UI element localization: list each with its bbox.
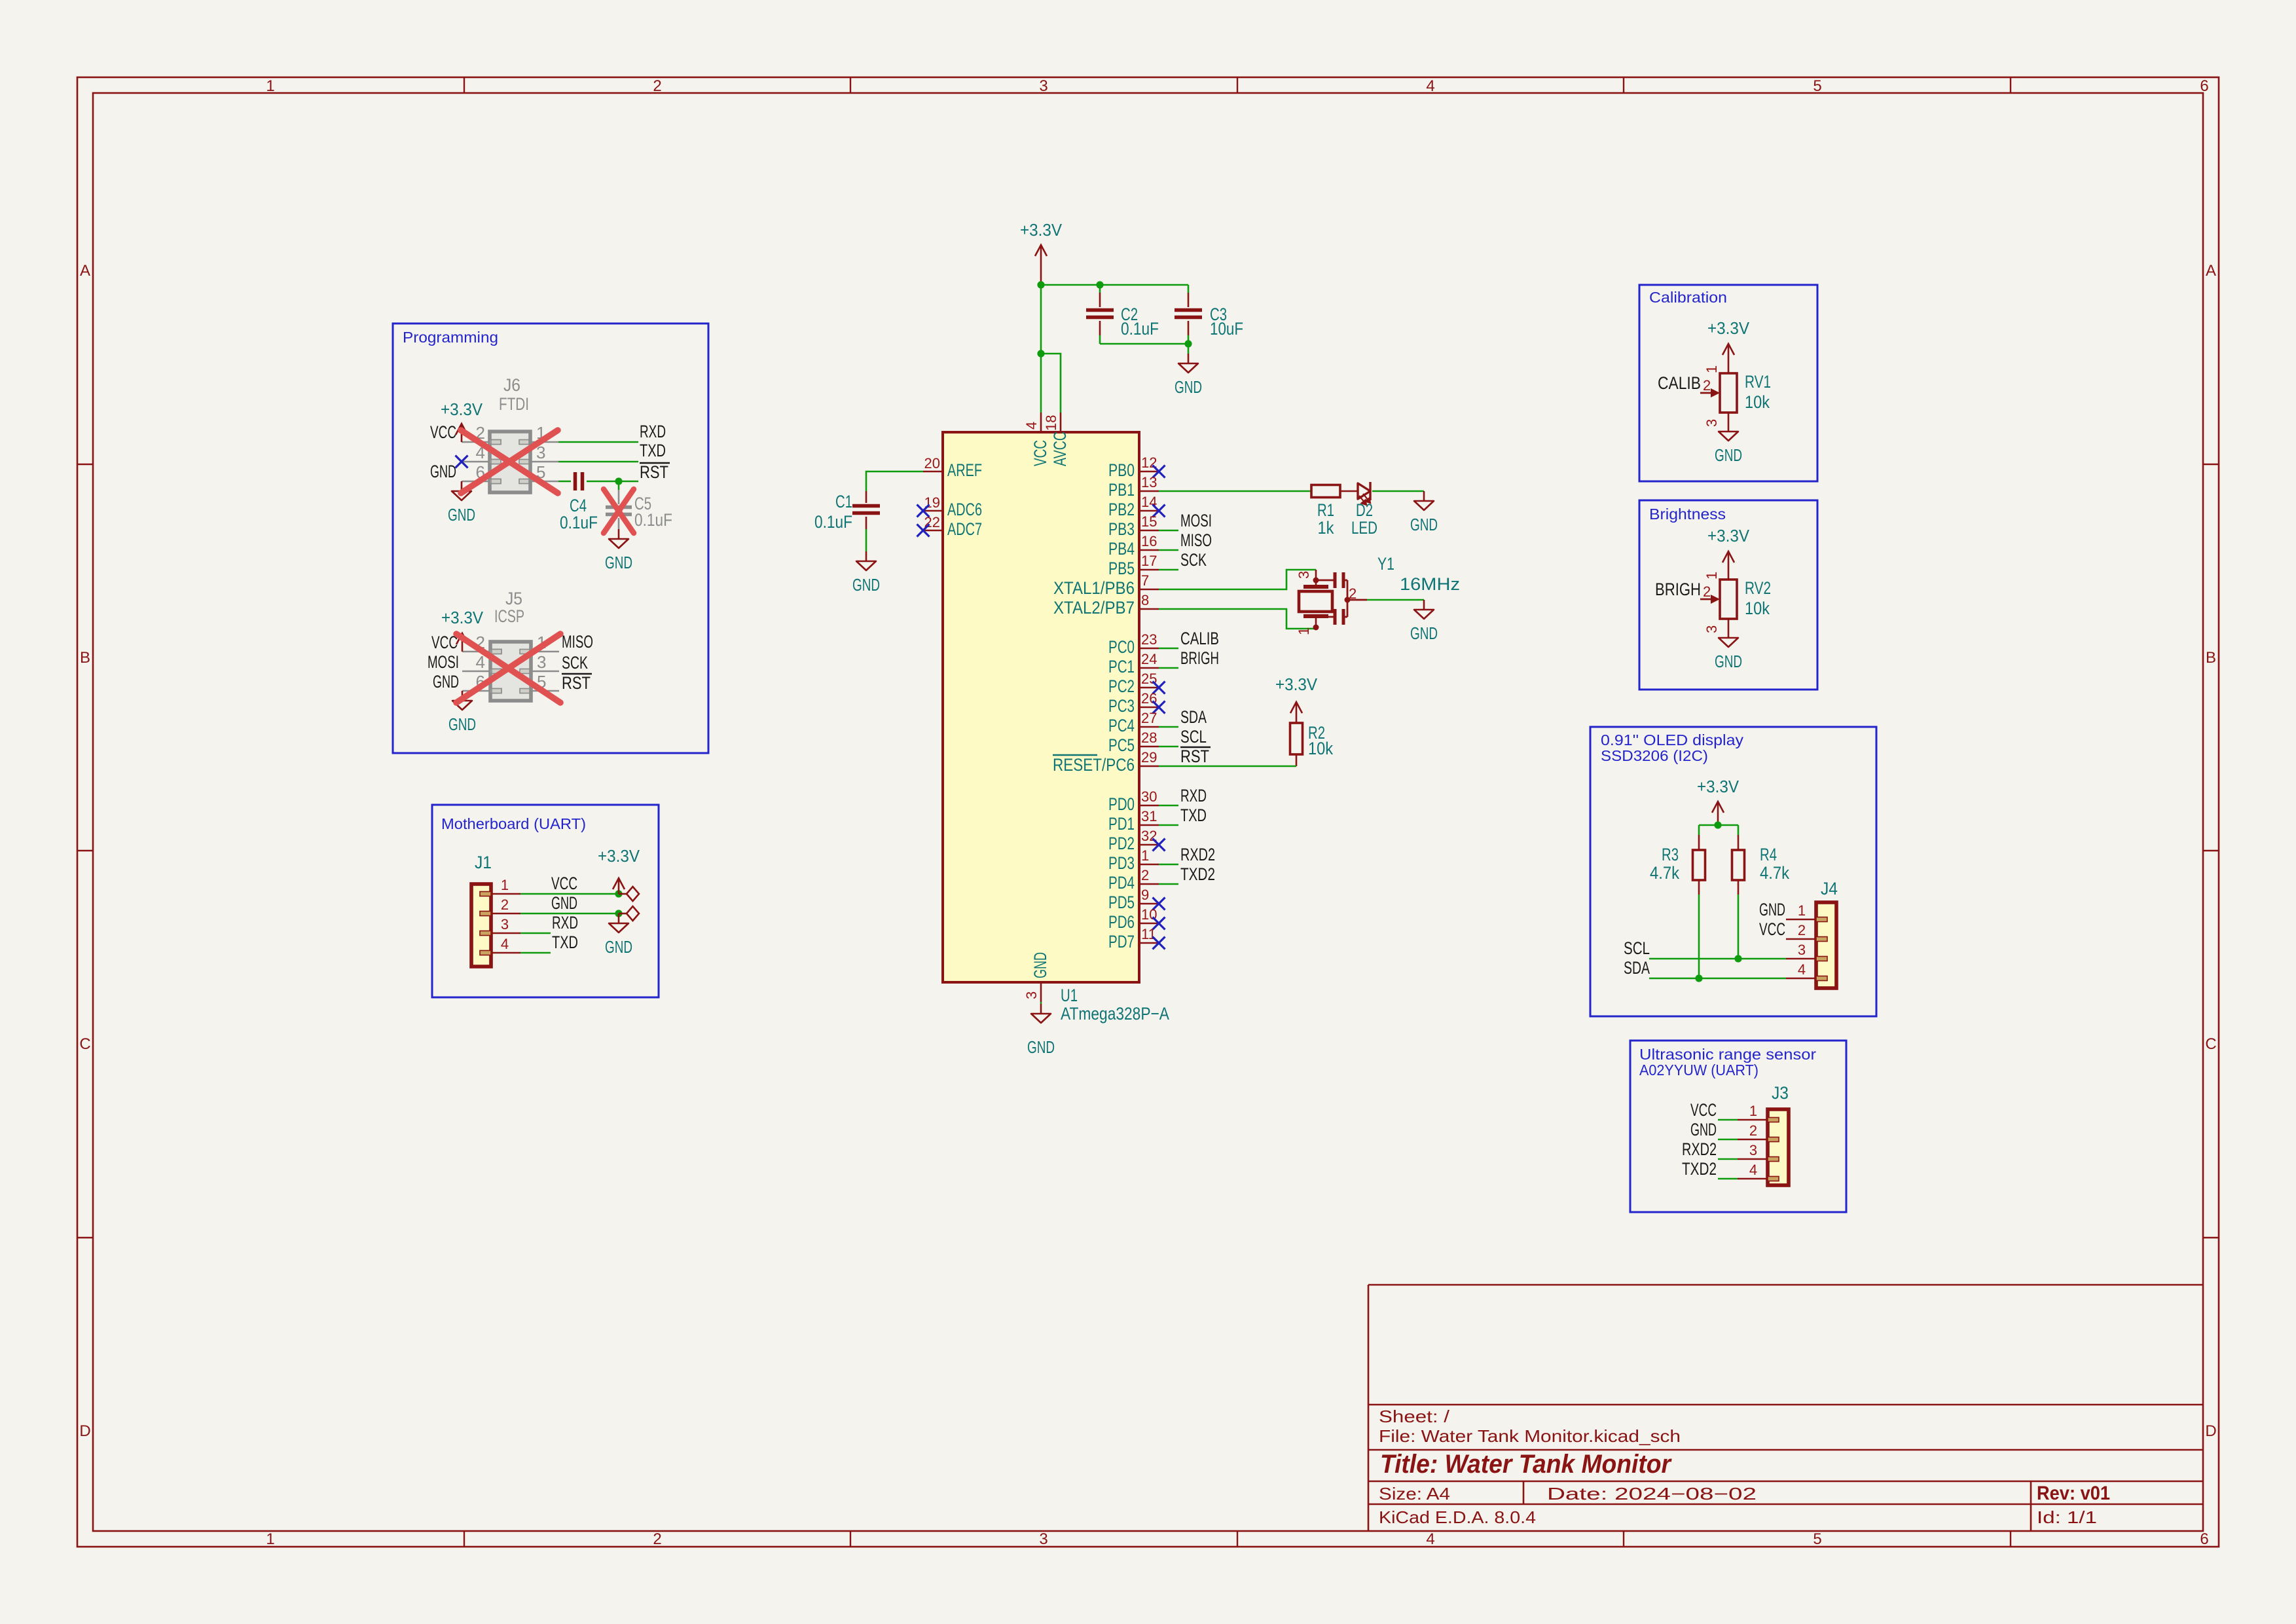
- svg-text:Size: A4: Size: A4: [1379, 1484, 1450, 1504]
- svg-text:+3.3V: +3.3V: [1707, 526, 1750, 545]
- svg-text:8: 8: [1141, 592, 1149, 608]
- svg-text:MISO: MISO: [562, 632, 593, 652]
- svg-text:PC0: PC0: [1108, 637, 1135, 657]
- wire SCK: [1159, 569, 1178, 571]
- svg-text:20: 20: [924, 455, 940, 471]
- wire J1 pin3 RXD: [520, 932, 551, 934]
- ground at J5 pin6: [448, 691, 476, 734]
- svg-text:9: 9: [1141, 887, 1149, 903]
- wire MISO: [1159, 549, 1178, 551]
- wire GND bottom: [1040, 1002, 1042, 1004]
- ground below C1: [852, 551, 880, 595]
- svg-text:10k: 10k: [1745, 599, 1770, 618]
- svg-text:+3.3V: +3.3V: [1275, 674, 1318, 694]
- wire junction down to C5: [618, 481, 620, 490]
- svg-text:0.91'' OLED display: 0.91'' OLED display: [1601, 731, 1744, 748]
- PWR_FLAG on GND: [619, 906, 639, 921]
- Programming note box: [393, 323, 708, 753]
- svg-text:PB5: PB5: [1108, 559, 1135, 578]
- svg-text:10uF: 10uF: [1210, 319, 1243, 339]
- pin 7 XTAL1/PB6: [1053, 572, 1159, 598]
- svg-text:PD3: PD3: [1108, 853, 1135, 873]
- resistor R4 4.7k: [1732, 845, 1790, 883]
- no-connect X PC2: [1153, 682, 1165, 694]
- capacitor C3: [1175, 293, 1243, 339]
- junction at C2 top: [1096, 281, 1103, 288]
- wire to VCC pin: [1040, 354, 1042, 413]
- pin 3 GND (bottom): [1023, 952, 1050, 1002]
- ground below RV1: [1715, 422, 1742, 465]
- svg-text:VCC: VCC: [1690, 1100, 1717, 1120]
- svg-text:GND: GND: [605, 937, 632, 957]
- svg-text:RXD: RXD: [640, 422, 666, 441]
- potentiometer RV1 10k: [1700, 365, 1771, 427]
- svg-text:4: 4: [1798, 961, 1806, 978]
- ground below U1: [1027, 1004, 1055, 1057]
- svg-text:SCK: SCK: [562, 653, 588, 673]
- power +3.3V top rail: [1020, 220, 1063, 285]
- capacitor C1: [814, 491, 880, 532]
- svg-text:PD2: PD2: [1108, 834, 1135, 853]
- svg-text:J5: J5: [505, 589, 522, 608]
- wire C1 to ground: [866, 529, 867, 551]
- svg-text:3: 3: [1749, 1142, 1757, 1158]
- svg-text:18: 18: [1043, 415, 1059, 431]
- wire TXD2 (J3): [1718, 1178, 1738, 1180]
- pin 26 PC3: [1108, 690, 1159, 716]
- junction R3/SDA: [1695, 974, 1702, 982]
- pin 23 PC0: [1108, 631, 1159, 657]
- power +3.3V at RV1: [1707, 318, 1750, 373]
- wire C3 top: [1188, 285, 1190, 293]
- svg-text:SDA: SDA: [1180, 707, 1207, 727]
- wire J1 pin2 GND: [520, 913, 619, 915]
- svg-text:Rev: v01: Rev: v01: [2037, 1483, 2110, 1504]
- svg-text:3: 3: [1704, 419, 1720, 427]
- svg-text:XTAL1/PB6: XTAL1/PB6: [1053, 578, 1135, 598]
- ground at J1: [605, 913, 632, 957]
- svg-text:SSD3206 (I2C): SSD3206 (I2C): [1601, 747, 1708, 764]
- svg-text:RXD2: RXD2: [1180, 845, 1215, 864]
- no-connect X PD7: [1153, 937, 1165, 950]
- DNP cross on J5: [456, 634, 560, 703]
- svg-text:C: C: [2205, 1035, 2216, 1053]
- svg-text:Title: Water Tank Monitor: Title: Water Tank Monitor: [1380, 1450, 1672, 1479]
- no-connect X ADC6: [917, 505, 930, 517]
- svg-text:4: 4: [1426, 1530, 1434, 1548]
- wire R4 to SCL: [1738, 880, 1740, 895]
- svg-text:GND: GND: [448, 714, 476, 734]
- svg-text:Ultrasonic range sensor: Ultrasonic range sensor: [1639, 1046, 1816, 1063]
- svg-text:PB2: PB2: [1108, 500, 1135, 519]
- wire XTAL1 to Y1 pin3: [1159, 570, 1316, 589]
- svg-text:4.7k: 4.7k: [1650, 863, 1679, 883]
- wire R3 to SDA: [1698, 880, 1700, 895]
- capacitor C2: [1086, 293, 1159, 339]
- svg-text:3: 3: [501, 916, 509, 932]
- svg-text:MISO: MISO: [1180, 530, 1212, 550]
- svg-text:16MHz: 16MHz: [1400, 574, 1460, 594]
- svg-text:Calibration: Calibration: [1649, 289, 1727, 306]
- svg-text:1: 1: [266, 1530, 274, 1548]
- svg-text:Programming: Programming: [403, 329, 498, 346]
- svg-text:10k: 10k: [1308, 739, 1333, 758]
- svg-text:BRIGH: BRIGH: [1180, 648, 1219, 668]
- svg-text:7: 7: [1141, 572, 1149, 589]
- svg-text:11: 11: [1141, 926, 1156, 942]
- wire to R3: [1698, 825, 1700, 835]
- svg-text:ICSP: ICSP: [494, 606, 524, 626]
- pin 30 PD0: [1108, 788, 1159, 814]
- wire CALIB: [1159, 648, 1178, 650]
- Ultrasonic sensor note box: [1630, 1041, 1846, 1212]
- connector J1: [471, 853, 520, 967]
- pin 9 PD5: [1108, 887, 1159, 912]
- power +3.3V at RV2: [1707, 526, 1750, 580]
- junction at VCC drop: [1037, 281, 1044, 288]
- svg-text:VCC: VCC: [551, 874, 577, 893]
- ground at J6 pin6: [448, 481, 475, 525]
- pin 15 PB3: [1108, 513, 1159, 539]
- svg-text:1: 1: [1704, 572, 1720, 580]
- svg-text:1: 1: [266, 77, 274, 95]
- pin 18 AVCC (top): [1043, 413, 1070, 466]
- wire TXD from J6 pin3: [558, 461, 638, 463]
- svg-text:PB4: PB4: [1108, 539, 1135, 559]
- power +3.3V at J5 pin2: [441, 608, 484, 652]
- no-connect X PD5: [1153, 898, 1165, 910]
- pin 4 VCC (top): [1023, 413, 1050, 466]
- svg-text:RST: RST: [562, 673, 591, 693]
- svg-text:RV2: RV2: [1745, 578, 1771, 598]
- svg-text:CALIB: CALIB: [1180, 629, 1219, 648]
- svg-text:GND: GND: [430, 462, 456, 481]
- svg-text:GND: GND: [852, 575, 880, 595]
- svg-text:5: 5: [1813, 77, 1821, 95]
- svg-text:10k: 10k: [1745, 392, 1770, 412]
- svg-text:13: 13: [1141, 474, 1157, 490]
- svg-text:GND: GND: [1030, 952, 1050, 978]
- svg-text:J6: J6: [503, 375, 520, 395]
- svg-text:4: 4: [1023, 422, 1040, 430]
- svg-text:ADC6: ADC6: [947, 500, 982, 519]
- DNP cross on J6: [461, 430, 558, 493]
- wire RXD2: [1159, 864, 1178, 866]
- wire AREF to C1: [866, 471, 923, 491]
- svg-text:TXD2: TXD2: [1682, 1159, 1717, 1179]
- svg-text:16: 16: [1141, 533, 1157, 549]
- wire D2 to ground: [1372, 490, 1424, 492]
- wire RESET to R2: [1159, 766, 1296, 767]
- svg-text:1: 1: [1749, 1103, 1757, 1119]
- wire J1 pin1 VCC: [520, 893, 619, 895]
- label RST on RESET/PC6 wire: [1180, 747, 1211, 766]
- pin 12 PB0: [1108, 454, 1159, 480]
- Motherboard (UART) note box: [432, 805, 659, 997]
- svg-text:PD4: PD4: [1108, 873, 1135, 893]
- svg-text:6: 6: [2200, 1530, 2208, 1548]
- wire down to VCC/AVCC split: [1040, 285, 1042, 354]
- svg-text:PD5: PD5: [1108, 893, 1135, 912]
- svg-text:RXD: RXD: [552, 913, 578, 932]
- wire SDA: [1649, 978, 1786, 980]
- svg-text:KiCad E.D.A. 8.0.4: KiCad E.D.A. 8.0.4: [1379, 1507, 1536, 1527]
- title block: [1368, 1285, 2203, 1531]
- svg-text:PD7: PD7: [1108, 932, 1135, 951]
- Calibration note box: [1639, 285, 1817, 481]
- svg-text:File: Water Tank Monitor.kicad: File: Water Tank Monitor.kicad_sch: [1379, 1426, 1681, 1446]
- pin 11 PD7: [1108, 926, 1159, 951]
- svg-text:BRIGH: BRIGH: [1655, 580, 1701, 599]
- junction at C3 bottom: [1184, 340, 1192, 347]
- connector J3: [1738, 1083, 1789, 1185]
- svg-text:A: A: [2206, 262, 2216, 280]
- wire MOSI: [1159, 530, 1178, 532]
- wire SCL: [1649, 958, 1786, 960]
- svg-text:4: 4: [1749, 1162, 1757, 1178]
- svg-text:PC5: PC5: [1108, 735, 1135, 755]
- pin R2 bottom: [1296, 754, 1298, 766]
- junction GND: [615, 910, 622, 917]
- svg-text:ATmega328P−A: ATmega328P−A: [1061, 1004, 1169, 1024]
- wire rail R3-R4: [1699, 824, 1738, 826]
- pin 22 ADC7: [923, 514, 982, 539]
- svg-text:3: 3: [1798, 942, 1806, 958]
- pin 1 PD3: [1108, 847, 1159, 873]
- wire C3 bottom: [1188, 335, 1190, 344]
- svg-text:3: 3: [1023, 991, 1040, 999]
- svg-text:A02YYUW (UART): A02YYUW (UART): [1639, 1061, 1758, 1079]
- svg-text:30: 30: [1141, 788, 1157, 805]
- wire TXD2: [1159, 883, 1178, 885]
- svg-text:5: 5: [1813, 1530, 1821, 1548]
- svg-text:0.1uF: 0.1uF: [1121, 319, 1159, 339]
- junction R4/SCL: [1734, 955, 1741, 962]
- capacitor C5 (DNP): [606, 490, 672, 530]
- capacitor C4: [560, 472, 598, 532]
- svg-text:4.7k: 4.7k: [1760, 863, 1789, 883]
- connector J4: [1786, 879, 1838, 988]
- svg-text:J1: J1: [475, 853, 492, 872]
- svg-text:PB1: PB1: [1108, 480, 1135, 500]
- svg-text:Id: 1/1: Id: 1/1: [2037, 1507, 2097, 1527]
- wire XTAL2 to Y1 pin1: [1159, 609, 1316, 629]
- svg-text:1: 1: [1141, 847, 1149, 864]
- svg-text:3: 3: [1296, 571, 1312, 579]
- Brightness note box: [1639, 500, 1817, 690]
- svg-text:VCC: VCC: [1759, 919, 1785, 939]
- pin 31 PD1: [1108, 808, 1159, 834]
- svg-text:GND: GND: [1027, 1037, 1055, 1057]
- bottom rail C2-C3: [1100, 343, 1188, 345]
- svg-text:GND: GND: [1410, 623, 1438, 643]
- power +3.3V at R2: [1275, 674, 1318, 723]
- pin 29 RESET/PC6: [1053, 749, 1159, 775]
- svg-text:+3.3V: +3.3V: [441, 608, 484, 627]
- svg-text:LED: LED: [1351, 518, 1377, 538]
- connector J5 (ICSP, DNP): [462, 589, 559, 701]
- svg-text:27: 27: [1141, 710, 1157, 726]
- svg-text:RST: RST: [640, 462, 668, 482]
- pin 28 PC5: [1108, 729, 1159, 755]
- wire C4 to RST junction: [587, 481, 638, 483]
- svg-text:+3.3V: +3.3V: [598, 846, 640, 866]
- svg-text:Sheet: /: Sheet: /: [1379, 1407, 1450, 1426]
- svg-text:2: 2: [653, 77, 661, 95]
- svg-text:PD0: PD0: [1108, 794, 1135, 814]
- DNP cross on C5: [604, 489, 634, 533]
- svg-text:Brightness: Brightness: [1649, 506, 1726, 523]
- svg-text:B: B: [2206, 649, 2216, 667]
- svg-text:28: 28: [1141, 729, 1157, 746]
- svg-text:+3.3V: +3.3V: [441, 399, 483, 419]
- pin 2 PD4: [1108, 867, 1159, 893]
- pin 27 PC4: [1108, 710, 1159, 735]
- svg-text:RXD: RXD: [1180, 786, 1207, 805]
- MCU U1 ATmega328P-A body: [943, 432, 1139, 982]
- svg-text:0.1uF: 0.1uF: [634, 510, 672, 530]
- junction VCC/AVCC split: [1037, 350, 1044, 357]
- svg-text:GND: GND: [551, 893, 577, 913]
- resistor R3 4.7k: [1650, 845, 1705, 883]
- svg-text:1k: 1k: [1318, 518, 1334, 538]
- svg-text:4: 4: [1426, 77, 1434, 95]
- svg-text:GND: GND: [1175, 377, 1202, 397]
- svg-text:A: A: [80, 262, 90, 280]
- pin 16 PB4: [1108, 533, 1159, 559]
- pin 32 PD2: [1108, 828, 1159, 853]
- svg-text:3: 3: [537, 652, 546, 672]
- svg-text:MOSI: MOSI: [1180, 511, 1212, 530]
- wire BRIGH: [1159, 667, 1178, 669]
- junction VCC: [615, 890, 622, 897]
- svg-text:TXD: TXD: [552, 932, 578, 952]
- svg-text:GND: GND: [1690, 1120, 1717, 1139]
- svg-text:D: D: [2205, 1422, 2216, 1440]
- svg-text:J4: J4: [1821, 879, 1838, 898]
- svg-text:PC1: PC1: [1108, 657, 1135, 676]
- svg-text:B: B: [80, 649, 90, 667]
- svg-text:MOSI: MOSI: [428, 652, 459, 672]
- no-connect X ADC7: [917, 525, 930, 537]
- no-connect X PB2: [1153, 505, 1165, 517]
- svg-text:RXD2: RXD2: [1682, 1139, 1717, 1159]
- wire SDA: [1159, 726, 1178, 728]
- no-connect X PC3: [1153, 701, 1165, 714]
- svg-text:1: 1: [1798, 902, 1806, 919]
- no-connect X PD2: [1153, 839, 1165, 851]
- svg-text:29: 29: [1141, 749, 1157, 766]
- svg-text:VCC: VCC: [1030, 440, 1050, 466]
- svg-text:PB3: PB3: [1108, 519, 1135, 539]
- svg-text:1: 1: [501, 877, 509, 893]
- PWR_FLAG on VCC: [619, 887, 639, 901]
- wire PB1 to R1: [1159, 490, 1311, 492]
- svg-text:XTAL2/PB7: XTAL2/PB7: [1053, 598, 1135, 618]
- no-connect X PB0: [1153, 466, 1165, 478]
- svg-text:R4: R4: [1760, 845, 1777, 864]
- svg-text:D2: D2: [1356, 500, 1373, 520]
- junction on RST net: [615, 477, 622, 485]
- svg-text:PB0: PB0: [1108, 460, 1135, 480]
- svg-text:GND: GND: [433, 672, 459, 692]
- svg-text:24: 24: [1141, 651, 1157, 667]
- wire C2 bottom: [1099, 335, 1101, 344]
- svg-text:SDA: SDA: [1624, 958, 1650, 978]
- ground after D2: [1410, 491, 1438, 534]
- pin 19 ADC6: [923, 494, 982, 519]
- svg-text:RESET/PC6: RESET/PC6: [1053, 755, 1135, 775]
- pin 13 PB1: [1108, 474, 1159, 500]
- svg-text:C1: C1: [835, 492, 852, 511]
- svg-text:RST: RST: [1180, 747, 1209, 766]
- svg-text:2: 2: [1141, 867, 1149, 883]
- svg-text:J3: J3: [1772, 1083, 1789, 1103]
- diode D2 LED: [1340, 482, 1377, 538]
- svg-text:D: D: [79, 1422, 90, 1440]
- svg-text:C: C: [79, 1035, 90, 1053]
- svg-text:SCL: SCL: [1624, 938, 1650, 958]
- ground below C3: [1175, 354, 1202, 397]
- svg-text:PC4: PC4: [1108, 716, 1135, 735]
- svg-text:PC2: PC2: [1108, 676, 1135, 696]
- pin RV1 bottom: [1728, 413, 1730, 422]
- svg-text:GND: GND: [605, 553, 632, 572]
- connector J6 (FTDI, DNP): [462, 375, 558, 492]
- svg-text:2: 2: [1703, 583, 1711, 600]
- wire RXD2 (J3): [1718, 1158, 1738, 1160]
- svg-text:1: 1: [1704, 365, 1720, 373]
- svg-text:2: 2: [653, 1530, 661, 1548]
- svg-text:2: 2: [1703, 377, 1711, 394]
- resistor R2: [1290, 723, 1334, 758]
- svg-text:TXD: TXD: [640, 441, 666, 460]
- svg-text:3: 3: [1039, 1530, 1048, 1548]
- svg-text:RV1: RV1: [1745, 372, 1771, 392]
- svg-text:2: 2: [501, 896, 509, 913]
- svg-text:GND: GND: [448, 505, 475, 525]
- label RST with overline: [640, 462, 670, 482]
- svg-text:Motherboard (UART): Motherboard (UART): [441, 815, 586, 832]
- power +3.3V at J1: [598, 846, 640, 894]
- svg-text:PC3: PC3: [1108, 696, 1135, 716]
- svg-text:Date: 2024−08−02: Date: 2024−08−02: [1547, 1484, 1757, 1504]
- svg-text:2: 2: [1749, 1122, 1757, 1139]
- svg-text:GND: GND: [1715, 652, 1742, 671]
- svg-text:R1: R1: [1317, 500, 1334, 520]
- pin 8 XTAL2/PB7: [1053, 592, 1159, 618]
- junction below power: [1714, 821, 1721, 828]
- svg-text:+3.3V: +3.3V: [1020, 220, 1063, 240]
- pin RV2 bottom: [1728, 619, 1730, 628]
- crystal resonator Y1 16MHz: [1296, 554, 1460, 635]
- svg-text:TXD: TXD: [1180, 805, 1207, 825]
- pin 20 AREF: [923, 455, 982, 480]
- svg-text:3: 3: [1704, 625, 1720, 633]
- wire jog to AVCC: [1041, 354, 1061, 413]
- ground after Y1: [1410, 600, 1438, 643]
- wire TXD: [1159, 824, 1178, 826]
- svg-text:FTDI: FTDI: [499, 394, 529, 414]
- ground below RV2: [1715, 628, 1742, 671]
- svg-text:R3: R3: [1662, 845, 1679, 864]
- ground below C5: [605, 529, 632, 572]
- svg-text:GND: GND: [1715, 445, 1742, 465]
- wire GND (J3): [1718, 1139, 1738, 1141]
- wire Y1 pin2 to ground: [1367, 599, 1424, 601]
- wire VCC (J3): [1718, 1119, 1738, 1121]
- wire RXD: [1159, 805, 1178, 807]
